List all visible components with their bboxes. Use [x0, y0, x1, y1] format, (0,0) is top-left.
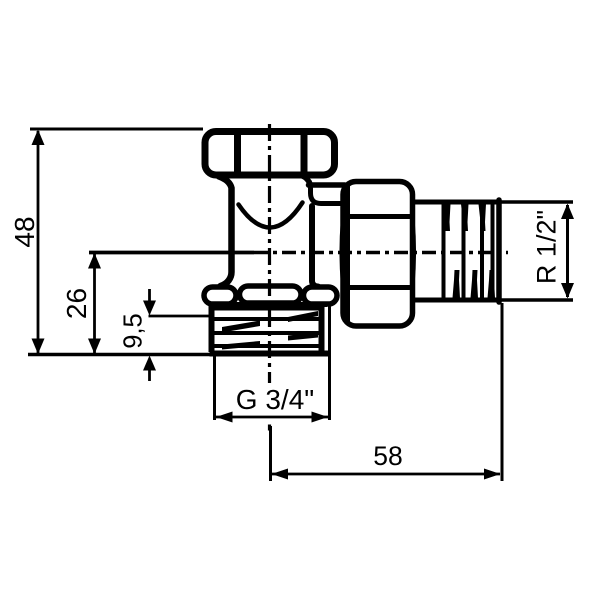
svg-text:48: 48	[9, 216, 40, 247]
svg-text:26: 26	[61, 288, 92, 319]
svg-text:R 1/2": R 1/2"	[532, 210, 562, 284]
svg-text:58: 58	[373, 441, 402, 471]
svg-text:9,5: 9,5	[120, 313, 148, 348]
svg-text:G 3/4": G 3/4"	[236, 384, 314, 415]
